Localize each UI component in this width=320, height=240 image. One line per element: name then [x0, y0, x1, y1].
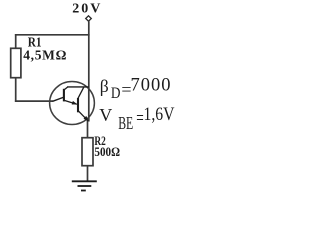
base bar 1	[63, 89, 65, 102]
wire: base horizontal	[15, 100, 53, 102]
wire: left vertical upper stub	[15, 34, 17, 49]
wire: emitter to R2	[87, 121, 89, 139]
resistor R2 body	[82, 138, 93, 166]
collector rail	[67, 86, 89, 88]
ground	[72, 180, 97, 182]
collector diagonal Q1	[64, 87, 68, 90]
wire: R2 to ground	[87, 166, 89, 182]
svg-text:β: β	[100, 76, 109, 96]
wire: top horizontal	[15, 34, 90, 36]
arrow 1	[72, 101, 78, 105]
emitter diagonal Q2	[78, 111, 88, 122]
emitter diagonal Q1	[64, 100, 77, 104]
wire: base slant into bar1	[53, 97, 64, 101]
svg-text:D: D	[111, 85, 121, 102]
collector diagonal Q2	[78, 87, 84, 98]
svg-text:V: V	[99, 105, 112, 125]
wire: main vertical from terminal through transistor	[88, 21, 90, 121]
arrow 2	[84, 116, 89, 122]
wire: left vertical lower stub	[15, 78, 17, 102]
base bar 2	[77, 98, 79, 112]
svg-text:BE: BE	[118, 113, 133, 133]
svg-text:4,5MΩ: 4,5MΩ	[23, 47, 67, 62]
resistor R1 body	[11, 48, 21, 77]
terminal (20V input diamond)	[86, 16, 92, 21]
svg-text:1,6V: 1,6V	[144, 105, 176, 125]
svg-text:20V: 20V	[72, 2, 102, 17]
svg-text:500Ω: 500Ω	[94, 144, 120, 159]
transistor circle	[50, 82, 95, 125]
svg-text:7000: 7000	[131, 76, 172, 96]
